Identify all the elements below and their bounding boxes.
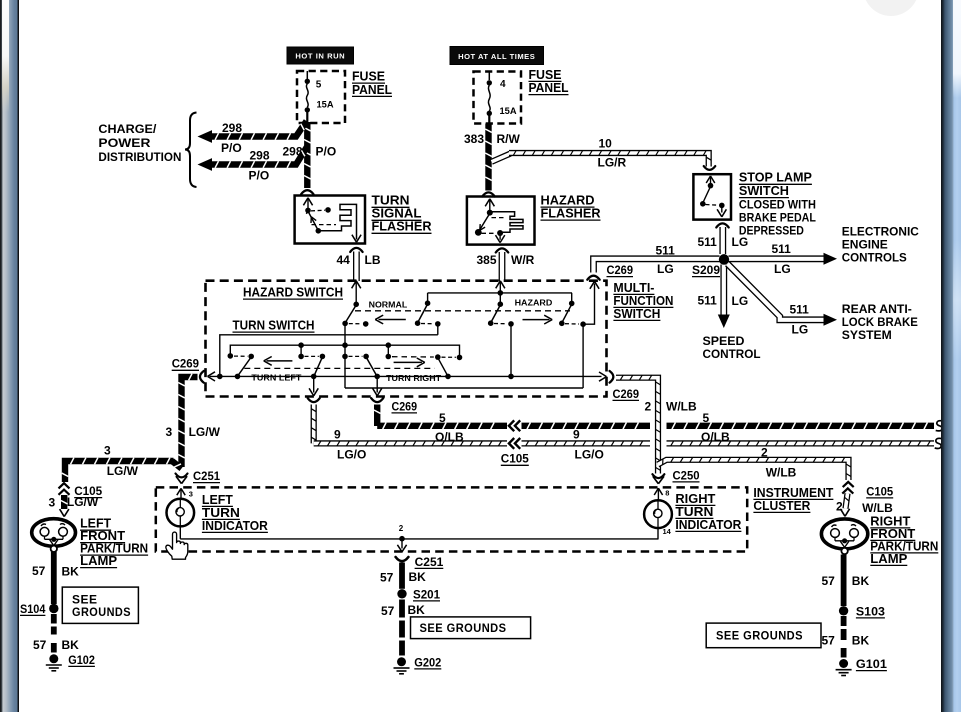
turn signal flasher U1 [295, 196, 365, 244]
label MULTI-FUNCTION SWITCH [613, 281, 673, 321]
connector C251 (left) [176, 469, 221, 484]
wire 9 LG/O down from C269 [311, 405, 316, 444]
svg-text:W/LB: W/LB [862, 501, 893, 515]
wire hazard output to C269 (top right) [583, 276, 600, 325]
right lamp output switch [349, 354, 378, 377]
splice S104 [20, 602, 59, 616]
svg-text:INDICATOR: INDICATOR [202, 519, 268, 533]
svg-text:S104: S104 [20, 602, 46, 616]
svg-text:57: 57 [822, 574, 836, 588]
label ELECTRONIC ENGINE CONTROLS [842, 224, 919, 264]
svg-text:57: 57 [381, 604, 395, 618]
svg-text:MULTI-: MULTI- [613, 281, 654, 295]
wire 57 BK left lamp to S104 [32, 552, 79, 604]
svg-text:W/LB: W/LB [766, 465, 797, 479]
connector C251 (center ground) [396, 555, 444, 569]
left turn indicator lamp [167, 488, 195, 539]
svg-text:FUSE: FUSE [529, 68, 562, 82]
svg-text:TURN RIGHT: TURN RIGHT [386, 374, 441, 383]
svg-text:LG: LG [732, 294, 749, 308]
connector at hazard flasher input [482, 192, 494, 196]
svg-text:BK: BK [62, 564, 80, 578]
svg-text:G102: G102 [68, 653, 95, 667]
turn switch normal-right contact [415, 293, 441, 335]
svg-text:C269: C269 [392, 399, 418, 413]
hazard flasher U2 [467, 197, 535, 245]
svg-text:CONTROLS: CONTROLS [842, 250, 907, 264]
svg-text:PANEL: PANEL [352, 83, 392, 97]
arrow hazard-right [523, 315, 553, 324]
right turn indicator lamp [644, 488, 672, 539]
hazard switch left contact [488, 301, 514, 376]
connectors C269 (bottom of multi-function switch) [308, 398, 418, 413]
wire 298 P/O upper branch to charge/power distribution [198, 121, 307, 155]
splice S209 [692, 254, 729, 277]
svg-text:5: 5 [316, 80, 322, 91]
connector at stop lamp switch input [704, 166, 716, 170]
svg-text:SWITCH: SWITCH [613, 307, 660, 321]
svg-text:LOCK BRAKE: LOCK BRAKE [842, 315, 918, 329]
svg-text:LG/O: LG/O [575, 447, 604, 461]
svg-text:LB: LB [365, 253, 381, 267]
see grounds box (left) [62, 587, 138, 623]
svg-text:BK: BK [852, 633, 870, 647]
svg-text:STOP LAMP: STOP LAMP [739, 171, 812, 185]
wire left-turn-lamp exit (down) [309, 376, 318, 395]
wire 5 O/LB down from C269 [374, 405, 381, 427]
see grounds box (center) [411, 617, 531, 639]
svg-text:14: 14 [663, 527, 672, 536]
svg-text:8: 8 [665, 489, 669, 498]
svg-text:15A: 15A [317, 99, 334, 109]
wire 57 BK right lamp to S103 [822, 555, 870, 607]
svg-text:LG/W: LG/W [67, 495, 99, 509]
splice S103 [839, 604, 885, 618]
wire 5 O/LB run to right front lamp area [377, 411, 934, 444]
label RIGHT TURN INDICATOR [675, 492, 741, 532]
label RIGHT FRONT PARK/TURN LAMP [870, 514, 938, 566]
turn-left switch contacts [228, 353, 255, 376]
svg-text:C269: C269 [607, 263, 634, 277]
ground G101 [836, 657, 888, 676]
connector C250 [652, 468, 699, 484]
hazard switch right contact [559, 293, 586, 327]
label FUSE PANEL (left) [352, 70, 392, 97]
svg-text:C105: C105 [501, 452, 529, 466]
svg-text:DEPRESSED: DEPRESSED [739, 223, 804, 237]
wire 511 LG S209 to rear anti-lock brake system [719, 254, 837, 336]
arrow normal-left [375, 315, 406, 324]
svg-text:ELECTRONIC: ELECTRONIC [842, 224, 919, 238]
wire lamp feed lower crossbar [345, 387, 583, 389]
svg-text:TURN SWITCH: TURN SWITCH [233, 319, 315, 333]
svg-text:298: 298 [250, 149, 270, 163]
wire 385 W/R entry into multi-function switch [496, 281, 505, 303]
left front park/turn lamp [32, 519, 76, 552]
wire 298 P/O lower branch to charge/power distribution [198, 147, 307, 183]
svg-text:9: 9 [334, 427, 341, 441]
svg-text:BK: BK [409, 570, 427, 584]
label STOP LAMP SWITCH CLOSED WITH BRAKE PEDAL DEPRESSED [739, 171, 816, 238]
svg-text:9: 9 [573, 427, 580, 441]
instrument cluster housing (dashed) [156, 487, 747, 551]
svg-text:S103: S103 [856, 604, 885, 618]
svg-text:57: 57 [822, 633, 836, 647]
label TURN SWITCH [233, 319, 315, 333]
svg-text:TURN LEFT: TURN LEFT [251, 373, 301, 382]
wire 57 BK S201 to G202 [381, 600, 425, 656]
svg-text:LG/R: LG/R [598, 156, 627, 170]
wire 298 P/O feed from fuse 5 [304, 122, 311, 188]
svg-text:385: 385 [477, 253, 497, 267]
svg-text:44: 44 [337, 253, 351, 267]
wire 511 LG stop lamp switch to S209 [698, 223, 749, 254]
svg-text:LG: LG [657, 262, 674, 276]
svg-text:FLASHER: FLASHER [541, 207, 601, 221]
svg-text:HAZARD: HAZARD [515, 299, 553, 308]
svg-text:3: 3 [104, 443, 111, 457]
svg-text:P/O: P/O [249, 169, 270, 183]
svg-text:BK: BK [62, 638, 80, 652]
svg-text:TURN: TURN [372, 194, 410, 208]
svg-text:TURN: TURN [202, 506, 240, 520]
connector C105 (right) [836, 482, 894, 515]
mechanical linkage 2 (dashed) [244, 367, 434, 369]
svg-text:DISTRIBUTION: DISTRIBUTION [98, 150, 181, 164]
svg-text:LG/W: LG/W [189, 425, 221, 439]
svg-text:P/O: P/O [316, 145, 337, 159]
wire 10 LG/R to stop lamp switch [492, 137, 712, 170]
svg-text:FUNCTION: FUNCTION [613, 294, 673, 308]
svg-text:511: 511 [698, 235, 718, 249]
wire 385 W/R flasher output to multi-function switch [477, 248, 535, 281]
turn switch normal-left contact [342, 302, 368, 327]
connector C269 (left exit) [172, 357, 204, 383]
svg-text:CHARGE/: CHARGE/ [98, 122, 157, 136]
svg-text:57: 57 [33, 638, 47, 652]
wire 511 LG S209 to electronic engine controls [729, 242, 838, 276]
svg-text:FUSE: FUSE [352, 70, 385, 84]
svg-text:BK: BK [408, 603, 426, 617]
right front park/turn lamp [821, 519, 867, 554]
fuse F5 15A [305, 71, 334, 123]
svg-text:HAZARD SWITCH: HAZARD SWITCH [243, 286, 343, 300]
continuation symbols at right edge [935, 421, 944, 449]
arrow turn right [384, 358, 445, 383]
svg-text:G101: G101 [856, 657, 887, 671]
svg-text:15A: 15A [500, 106, 517, 116]
wire ground drop from cluster [397, 539, 406, 552]
svg-text:C251: C251 [415, 555, 444, 569]
connector C105 (left) [49, 483, 103, 509]
svg-text:BRAKE PEDAL: BRAKE PEDAL [739, 210, 816, 224]
svg-text:S201: S201 [413, 587, 440, 601]
wire 3 LG/W horizontal run to C105 [62, 443, 182, 482]
wire 44 LB flasher output to multi-function switch [337, 248, 381, 281]
svg-text:CONTROL: CONTROL [703, 347, 761, 361]
wire 3 LG/W C105 to left lamp [60, 495, 69, 517]
wire 44 LB entry into multi-function switch [352, 281, 361, 303]
wire 57 BK S103 to G101 [822, 616, 870, 658]
svg-text:LG: LG [774, 262, 791, 276]
label INSTRUMENT CLUSTER [753, 486, 833, 513]
svg-text:GROUNDS: GROUNDS [72, 605, 131, 619]
svg-text:57: 57 [32, 564, 46, 578]
svg-text:2: 2 [645, 399, 652, 413]
svg-text:INDICATOR: INDICATOR [675, 518, 741, 532]
fuse panel box (left) [297, 71, 345, 123]
svg-text:57: 57 [380, 571, 394, 585]
svg-text:SEE GROUNDS: SEE GROUNDS [716, 629, 803, 643]
svg-text:SIGNAL: SIGNAL [372, 207, 422, 221]
wire 511 LG S209 to C269 multi-function switch [594, 244, 720, 278]
labels 298 P/O on vertical feed [283, 145, 337, 159]
svg-text:C269: C269 [613, 387, 640, 401]
svg-text:REAR ANTI-: REAR ANTI- [842, 302, 912, 316]
svg-text:S209: S209 [692, 263, 720, 277]
see grounds box (right) [706, 623, 821, 648]
svg-text:NORMAL: NORMAL [369, 301, 408, 310]
svg-text:R/W: R/W [497, 132, 521, 146]
svg-text:298: 298 [283, 145, 303, 159]
stop lamp switch S1 [693, 174, 731, 219]
svg-text:C105: C105 [866, 484, 893, 498]
left lamp output switch [298, 345, 325, 376]
svg-text:3: 3 [49, 496, 56, 510]
svg-text:TURN: TURN [675, 505, 713, 519]
svg-text:RIGHT: RIGHT [675, 492, 715, 506]
wire 383 R/W from fuse 4 to hazard flasher [464, 124, 521, 191]
svg-text:LG/O: LG/O [337, 447, 366, 461]
label LEFT FRONT PARK/TURN LAMP [80, 517, 148, 568]
svg-text:2: 2 [761, 445, 768, 459]
label HAZARD SWITCH [243, 286, 343, 300]
wire 511 LG S209 to speed control [698, 265, 749, 329]
power tag HOT IN RUN [287, 47, 354, 64]
svg-text:BK: BK [852, 574, 870, 588]
connector C269 (right exit) [610, 371, 640, 401]
svg-text:4: 4 [500, 79, 506, 90]
svg-text:LAMP: LAMP [80, 554, 117, 568]
svg-text:SEE GROUNDS: SEE GROUNDS [420, 621, 507, 635]
ground G102 [46, 653, 95, 671]
wire hazard contact down to lamp feed line [582, 325, 584, 388]
label HAZARD FLASHER [541, 194, 601, 221]
label TURN SIGNAL FLASHER [372, 194, 432, 234]
svg-text:511: 511 [698, 294, 718, 308]
svg-text:5: 5 [439, 411, 446, 425]
svg-text:3: 3 [166, 425, 173, 439]
svg-text:511: 511 [772, 242, 792, 256]
svg-text:511: 511 [790, 303, 810, 317]
wire 3 LG/W C269 down to C251 [166, 374, 221, 467]
wire 57 BK S104 to G102 [33, 614, 79, 653]
svg-text:W/R: W/R [511, 253, 535, 267]
label NORMAL [369, 301, 408, 310]
ground G202 [394, 655, 442, 674]
svg-text:298: 298 [222, 121, 242, 135]
wire H2 crossbar [230, 342, 459, 356]
svg-text:LAMP: LAMP [870, 552, 907, 566]
label LEFT TURN INDICATOR [202, 493, 268, 533]
label FUSE PANEL (right) [529, 68, 569, 95]
svg-text:SYSTEM: SYSTEM [842, 328, 892, 342]
turn-right switch contacts [386, 345, 463, 376]
svg-text:ENGINE: ENGINE [842, 237, 888, 251]
wire feed crossbar to right switch halves [428, 290, 572, 296]
svg-text:LG: LG [792, 323, 809, 337]
mechanical linkage (dashed) [355, 310, 570, 312]
wire 57 BK to S201 [380, 563, 426, 589]
arrow turn left [249, 357, 305, 383]
svg-text:FLASHER: FLASHER [372, 220, 432, 234]
wire 9 LG/O run [314, 427, 934, 461]
wire H1 to turn-left line [220, 335, 438, 377]
multi-function switch housing (dashed) [206, 281, 607, 397]
svg-text:C250: C250 [673, 468, 700, 482]
label HAZARD (switch position) [515, 299, 553, 308]
svg-text:CLUSTER: CLUSTER [753, 499, 810, 513]
svg-text:CLOSED WITH: CLOSED WITH [739, 197, 816, 211]
wire 2 W/LB from C269 down to C250 [616, 375, 697, 473]
wire indicator common return [180, 524, 658, 541]
label REAR ANTI-LOCK BRAKE SYSTEM [842, 302, 918, 342]
wire lamp-feed bottom line [208, 372, 607, 381]
svg-text:P/O: P/O [221, 141, 242, 155]
svg-text:5: 5 [703, 411, 710, 425]
svg-text:10: 10 [599, 137, 613, 151]
svg-text:INSTRUMENT: INSTRUMENT [753, 486, 833, 500]
label SPEED CONTROL [703, 334, 761, 361]
svg-text:SPEED: SPEED [703, 334, 745, 348]
splice S201 [397, 587, 440, 601]
svg-text:HAZARD: HAZARD [541, 194, 595, 208]
svg-text:LG/W: LG/W [107, 464, 139, 478]
svg-text:POWER: POWER [98, 136, 150, 150]
wire center column (turn switch feed) [342, 324, 348, 388]
mouse cursor [166, 532, 188, 559]
svg-text:LEFT: LEFT [202, 493, 233, 507]
connector at turn signal flasher input [301, 190, 313, 194]
wire 2 W/LB branch to right front lamp [658, 445, 851, 480]
svg-text:C269: C269 [172, 357, 200, 371]
svg-text:HOT AT ALL TIMES: HOT AT ALL TIMES [458, 52, 535, 61]
fuse panel box (right) [474, 72, 522, 124]
wire right-turn-lamp exit (down) [373, 376, 382, 395]
svg-text:G202: G202 [414, 655, 441, 669]
svg-text:HOT IN RUN: HOT IN RUN [295, 52, 345, 61]
svg-text:LG: LG [732, 235, 749, 249]
connector C105 (in-line on O/LB and LG/O) [501, 420, 529, 465]
svg-text:SWITCH: SWITCH [739, 184, 789, 198]
power tag HOT AT ALL TIMES [450, 47, 544, 65]
svg-text:W/LB: W/LB [666, 399, 697, 413]
svg-text:383: 383 [464, 132, 484, 146]
fuse F4 15A [487, 72, 517, 124]
svg-text:511: 511 [656, 244, 676, 258]
svg-text:2: 2 [399, 524, 404, 533]
svg-text:PANEL: PANEL [529, 81, 569, 95]
wire 2 W/LB C105 to right lamp [840, 494, 849, 517]
brace and label CHARGE/POWER DISTRIBUTION [98, 113, 196, 188]
svg-text:3: 3 [189, 490, 193, 499]
svg-text:C251: C251 [193, 469, 220, 483]
